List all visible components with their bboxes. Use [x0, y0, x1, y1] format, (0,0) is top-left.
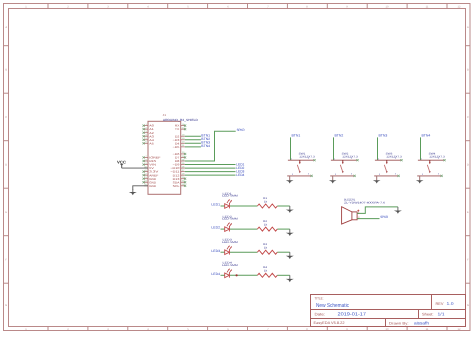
J1 pin 11 3.3V — [143, 169, 159, 174]
svg-text:GND: GND — [149, 184, 156, 188]
J1 pin 17 TX — [175, 126, 186, 131]
J1 pin 16 RX — [175, 123, 186, 128]
svg-text:SCL: SCL — [173, 184, 180, 188]
svg-text:A5: A5 — [149, 141, 154, 145]
svg-text:LED4: LED4 — [211, 272, 220, 276]
svg-text:LED3: LED3 — [211, 249, 220, 253]
svg-text:~D5: ~D5 — [173, 145, 180, 149]
J1 pin 7 IOREF — [143, 155, 161, 160]
buzzer BUZZER1 ZL-YDW1407-4005PA-7.6 — [342, 199, 386, 225]
wire J1 D12 to LED4 — [185, 174, 236, 176]
wire LED cathode to R3 — [230, 251, 258, 253]
wire J1 GND to ground — [133, 186, 148, 190]
resistor R1 1k — [257, 197, 277, 208]
svg-text:LED-5MM: LED-5MM — [222, 264, 238, 267]
wire J1 D4 to BTN3 — [185, 142, 201, 144]
svg-text:B: B — [467, 69, 469, 72]
wire BUZZER1 pin2 to SPKR — [357, 218, 379, 220]
J1 pin 29 D13 — [173, 176, 187, 181]
wire J1 D3 to BTN2 — [185, 139, 201, 141]
wire J1 D2 to BTN1 — [185, 135, 201, 137]
svg-text:B: B — [5, 69, 7, 72]
svg-text:R2: R2 — [263, 220, 268, 223]
svg-text:G: G — [467, 304, 469, 307]
ground — [286, 229, 294, 236]
LED LED1 LED-5MM — [222, 192, 238, 208]
wire J1 D10 to LED2 — [185, 167, 236, 169]
J1 pin 28 D12 — [173, 172, 186, 177]
power flag VCC — [117, 159, 126, 168]
J1 pin 18 D2 — [175, 134, 185, 139]
svg-text:A: A — [467, 26, 469, 29]
LED LED4 LED-5MM — [222, 262, 238, 278]
switch SW1 12X12X7.3 — [287, 152, 315, 177]
svg-text:D: D — [5, 164, 7, 167]
pin 1 — [357, 212, 359, 214]
wire BTN3 to SW3 pin 1 — [377, 137, 379, 160]
svg-text:E: E — [467, 211, 469, 214]
wire VCC to J1 5V — [122, 167, 148, 169]
wire LED2 to LED anode — [221, 228, 225, 230]
pin 2 — [357, 218, 359, 220]
svg-text:LED-5MM: LED-5MM — [222, 218, 238, 221]
svg-text:R3: R3 — [263, 243, 268, 246]
ground — [286, 206, 294, 213]
J1 pin 2 A1 — [143, 126, 155, 131]
wire BTN1 to SW1 pin 1 — [290, 137, 292, 160]
ground — [286, 275, 294, 282]
wire R1 to ground — [277, 205, 290, 207]
junction — [236, 274, 238, 276]
wire R4 to ground — [277, 274, 290, 276]
J1 pin 14 GND — [143, 180, 157, 185]
wire LED4 to LED anode — [221, 274, 225, 276]
svg-text:LED-5MM: LED-5MM — [222, 241, 238, 244]
J1 pin 20 D4 — [175, 141, 185, 146]
J1 pin 6 A5 — [143, 141, 155, 146]
svg-text:LED-5MM: LED-5MM — [222, 195, 238, 198]
svg-text:SPKR: SPKR — [237, 128, 246, 132]
svg-text:D: D — [467, 164, 469, 167]
J1 pin 8 RES — [143, 158, 157, 163]
ground — [286, 176, 294, 184]
ground (J1 GND) — [129, 189, 137, 195]
J1 pin 3 A2 — [143, 130, 155, 135]
J1 pin 23 D7 — [175, 155, 186, 160]
J1 pin 22 ~D6 — [173, 151, 187, 156]
J1 pin 25 ~D9 — [173, 162, 186, 167]
wire LED1 to LED anode — [221, 205, 225, 207]
resistor R2 1k — [257, 220, 277, 231]
svg-text:A: A — [5, 26, 7, 29]
svg-text:R1: R1 — [263, 197, 268, 200]
J1 pin 24 D8 — [175, 158, 185, 163]
wire BUZZER1 pin1 to ground — [357, 207, 398, 214]
J1 pin 27 ~D11 — [170, 169, 185, 174]
J1 pin 26 ~D10 — [170, 165, 185, 170]
svg-text:SPKR: SPKR — [380, 215, 389, 219]
wire R2 to ground — [277, 228, 290, 230]
LED LED3 LED-5MM — [222, 239, 238, 255]
svg-text:BTN3: BTN3 — [379, 134, 388, 138]
switch SW4 12X12X7.3 — [417, 152, 445, 177]
wire J1 D5 to BTN4 — [185, 146, 201, 148]
wire LED cathode to R2 — [230, 228, 258, 230]
wire J1 D11 to LED3 — [185, 171, 236, 173]
ground (buzzer) — [394, 207, 402, 214]
J1 pin 21 ~D5 — [173, 144, 186, 149]
svg-text:aissafh: aissafh — [414, 320, 430, 325]
svg-text:Sheet:: Sheet: — [422, 312, 434, 316]
J1 pin 19 ~D3 — [173, 137, 186, 142]
svg-text:C: C — [467, 116, 469, 119]
wire LED cathode to R4 — [230, 274, 258, 276]
switch SW3 12X12X7.3 — [374, 152, 402, 177]
switch SW2 12X12X7.3 — [330, 152, 358, 177]
svg-text:1.0: 1.0 — [447, 301, 455, 306]
resistor R4 1k — [257, 266, 277, 277]
wire BTN2 to SW2 pin 1 — [333, 137, 335, 160]
svg-text:REV: REV — [436, 302, 444, 306]
LED LED2 LED-5MM — [222, 215, 238, 231]
ground — [416, 176, 424, 184]
svg-text:E: E — [5, 211, 7, 214]
svg-text:BTN4: BTN4 — [422, 134, 431, 138]
ground — [329, 176, 337, 184]
wire J1 D9 to LED1 — [185, 164, 236, 166]
wire J1 D8 to SPKR — [185, 131, 236, 161]
svg-text:LED4: LED4 — [236, 173, 244, 177]
svg-text:BTN4: BTN4 — [201, 144, 210, 148]
svg-text:ARDUINO_R3_SHIELD: ARDUINO_R3_SHIELD — [163, 118, 199, 122]
J1 pin 31 SCL — [173, 183, 187, 188]
svg-text:C: C — [5, 116, 7, 119]
ground — [373, 176, 381, 184]
svg-text:EasyEDA V5.8.22: EasyEDA V5.8.22 — [314, 321, 345, 325]
wire R3 to ground — [277, 251, 290, 253]
title block — [311, 295, 466, 327]
J1 pin 30 SDA — [173, 180, 187, 185]
ground — [286, 252, 294, 259]
wire BTN4 to SW4 pin 1 — [420, 137, 422, 160]
J1 pin 15 GND — [144, 183, 156, 188]
svg-text:G: G — [5, 304, 7, 307]
svg-text:J1: J1 — [163, 113, 167, 117]
J1 pin 5 A4 — [143, 137, 155, 142]
J1 pin 1 A0 — [143, 123, 155, 128]
svg-text:LED2: LED2 — [211, 226, 220, 230]
J1 pin 9 VIN — [143, 162, 157, 167]
svg-text:New Schematic: New Schematic — [316, 302, 349, 309]
wire LED cathode to R1 — [230, 205, 258, 207]
svg-text:1/1: 1/1 — [438, 311, 446, 316]
svg-text:R4: R4 — [263, 266, 268, 269]
J1 pin 4 A3 — [143, 134, 155, 139]
svg-text:Date:: Date: — [315, 312, 326, 316]
svg-text:Drawn By:: Drawn By: — [389, 321, 409, 325]
svg-text:TX: TX — [175, 127, 180, 131]
J1 pin 10 5V — [144, 165, 154, 170]
svg-text:ZL-YDW1407-4005PA-7.6: ZL-YDW1407-4005PA-7.6 — [344, 201, 386, 204]
svg-text:TITLE:: TITLE: — [315, 297, 324, 301]
svg-text:BTN1: BTN1 — [292, 134, 301, 138]
J1 pin 12 AREF — [143, 172, 159, 177]
wire LED3 to LED anode — [221, 251, 225, 253]
svg-text:BTN2: BTN2 — [335, 134, 344, 138]
svg-text:VCC: VCC — [117, 159, 126, 164]
resistor R3 1k — [257, 243, 277, 254]
connector J1 ARDUINO_R3_SHIELD — [143, 113, 199, 194]
svg-text:LED1: LED1 — [211, 203, 220, 207]
J1 pin 13 GND — [143, 176, 157, 181]
svg-text:2019-01-17: 2019-01-17 — [338, 311, 367, 316]
